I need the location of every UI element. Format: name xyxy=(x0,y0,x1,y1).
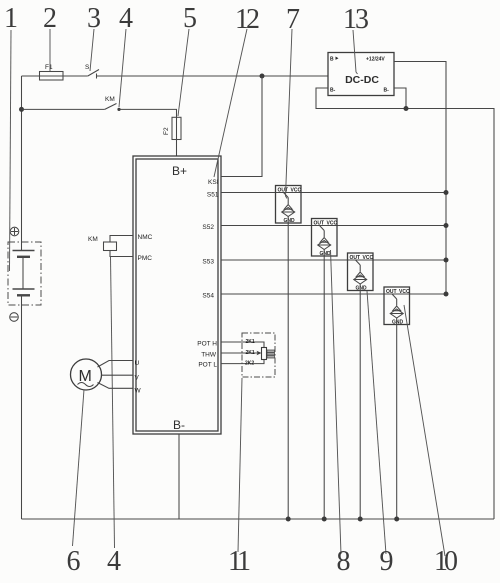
wire: DC-DC B- left loop xyxy=(316,88,494,519)
svg-text:DC-DC: DC-DC xyxy=(345,74,379,86)
switch S fixed contact tick xyxy=(96,74,98,79)
svg-text:B-: B- xyxy=(384,88,390,94)
svg-text:B-: B- xyxy=(173,418,185,432)
svg-text:2K1: 2K1 xyxy=(246,339,255,345)
svg-text:OUT: OUT xyxy=(314,221,325,227)
leader line to label 2 xyxy=(49,29,51,71)
svg-text:VCC: VCC xyxy=(291,188,302,194)
svg-text:12: 12 xyxy=(235,4,260,35)
leader line to label 12 xyxy=(214,29,247,177)
wire: battery - wire down to bottom bus xyxy=(21,305,23,519)
wire: motor V phase xyxy=(102,374,134,376)
wire: top B+ line from battery corner to fuse F1 xyxy=(22,75,88,77)
motor controller U1 xyxy=(133,156,221,434)
svg-text:11: 11 xyxy=(228,546,251,577)
node: SQ1 GND on bus xyxy=(286,517,291,522)
svg-text:VCC: VCC xyxy=(399,289,410,295)
svg-text:1: 1 xyxy=(4,3,18,34)
leader line to label 9 xyxy=(367,291,386,554)
svg-text:8: 8 xyxy=(337,546,351,577)
svg-text:B: B xyxy=(330,57,334,63)
svg-text:2: 2 xyxy=(43,3,57,34)
svg-text:F2: F2 xyxy=(163,127,170,135)
potentiometer RP body xyxy=(262,348,267,360)
svg-text:VCC: VCC xyxy=(327,221,338,227)
wire: controller B- to bottom bus xyxy=(178,434,180,519)
node: SQ2 GND on bus xyxy=(322,517,327,522)
sensor SQ4 box xyxy=(384,287,410,519)
svg-text:KSI: KSI xyxy=(208,179,219,186)
wire: S54 line to VCC bus xyxy=(221,293,446,295)
contactor KM fixed contact dot xyxy=(117,108,120,111)
svg-text:9: 9 xyxy=(380,546,394,577)
leader line to label 10 xyxy=(404,305,445,556)
svg-text:S: S xyxy=(85,64,90,71)
fuse F2 xyxy=(172,117,181,139)
potentiometer knob (hatched) xyxy=(267,350,275,358)
svg-text:VCC: VCC xyxy=(363,255,374,261)
leader line to label 4 (top) xyxy=(119,29,126,107)
wire: motor W phase xyxy=(98,383,134,389)
wire: KM contact to F2 xyxy=(119,109,177,156)
svg-text:OUT: OUT xyxy=(278,188,289,194)
svg-text:NMC: NMC xyxy=(138,234,153,241)
svg-text:B+: B+ xyxy=(172,164,187,178)
battery phantom box xyxy=(8,242,41,305)
svg-text:5: 5 xyxy=(183,3,197,34)
wire: S52 line to VCC bus xyxy=(221,225,446,227)
svg-text:3: 3 xyxy=(87,3,101,34)
wire: top B+ line after switch S to DC-DC B+ xyxy=(97,75,329,77)
wire: +12/24V output to VCC bus xyxy=(394,62,446,296)
wire: motor U phase xyxy=(98,361,134,368)
svg-text:S53: S53 xyxy=(202,259,214,266)
svg-text:POT L: POT L xyxy=(198,362,217,369)
svg-text:THW: THW xyxy=(201,352,217,359)
svg-text:S52: S52 xyxy=(202,224,214,231)
svg-text:6: 6 xyxy=(67,546,81,577)
node: SQ3 GND on bus xyxy=(358,517,363,522)
contactor KM main contact blade xyxy=(105,104,117,110)
leader line to label 7 xyxy=(286,29,293,199)
motor M1 xyxy=(71,359,102,390)
svg-text:GND: GND xyxy=(320,251,332,257)
svg-text:POT H: POT H xyxy=(197,341,217,348)
svg-text:F1: F1 xyxy=(45,64,53,71)
svg-text:PMC: PMC xyxy=(138,255,153,262)
leader line to label 1 xyxy=(10,30,12,271)
wire: KM coil to PMC xyxy=(110,251,133,257)
leader line to label 5 xyxy=(178,29,189,116)
svg-text:4: 4 xyxy=(119,3,133,34)
fuse F1 xyxy=(40,72,64,81)
svg-text:KM: KM xyxy=(105,96,115,103)
wire: POT L xyxy=(221,360,264,364)
battery plus terminal symbol xyxy=(10,227,19,236)
node: VCC bus taps xyxy=(444,190,449,195)
sensor SQ3 box xyxy=(348,253,374,519)
wire: POT H xyxy=(221,342,264,348)
wire: S51 line to VCC bus xyxy=(221,192,446,194)
sensor SQ1 box xyxy=(276,186,302,520)
wire: NMC to KM coil xyxy=(110,236,133,243)
node: junction left wire / KM line xyxy=(19,107,24,112)
svg-text:U: U xyxy=(135,360,140,367)
battery B1 cells xyxy=(13,251,35,306)
wire: bottom B- bus xyxy=(22,518,495,520)
sensor SQ2 box xyxy=(312,219,338,520)
leader line to label 11 xyxy=(238,378,242,552)
leader line to label 13 xyxy=(353,30,358,74)
svg-text:OUT: OUT xyxy=(350,255,361,261)
svg-text:W: W xyxy=(135,388,142,395)
svg-text:7: 7 xyxy=(286,4,300,35)
svg-text:+12/24V: +12/24V xyxy=(366,57,385,63)
svg-text:KM: KM xyxy=(88,236,98,243)
leader line to label 4 (bottom) xyxy=(111,257,115,549)
svg-text:GND: GND xyxy=(284,218,296,224)
leader line to label 8 xyxy=(331,250,342,554)
switch S blade xyxy=(88,70,99,77)
wire: S53 line to VCC bus xyxy=(221,259,446,261)
svg-text:2K2: 2K2 xyxy=(245,361,254,367)
node: junction of B+ line and KSI drop xyxy=(260,74,265,79)
svg-text:13: 13 xyxy=(343,4,369,35)
node: B- loop junction xyxy=(404,106,409,111)
DC-DC converter U2 xyxy=(328,53,394,96)
svg-text:S51: S51 xyxy=(207,192,219,199)
wire: KSI to B+ line xyxy=(221,76,262,177)
wire: THW with wiper arrow xyxy=(221,352,258,354)
wire: DC-DC B- right to loop xyxy=(394,88,406,109)
wire: KM contact line from left wire xyxy=(22,108,105,110)
contactor KM coil xyxy=(104,242,117,251)
throttle unit dashed box xyxy=(242,333,275,377)
leader line to label 6 xyxy=(73,390,85,547)
svg-text:B-: B- xyxy=(330,88,336,94)
svg-text:OUT: OUT xyxy=(386,289,397,295)
node: SQ4 GND on bus xyxy=(394,517,399,522)
battery minus terminal symbol xyxy=(10,313,19,322)
svg-text:S54: S54 xyxy=(202,293,214,300)
leader line to label 3 xyxy=(90,29,94,71)
svg-text:GND: GND xyxy=(392,320,404,326)
svg-text:2K1: 2K1 xyxy=(246,350,255,356)
svg-text:4: 4 xyxy=(107,546,121,577)
svg-text:10: 10 xyxy=(434,546,458,577)
svg-text:GND: GND xyxy=(356,286,368,292)
wire: left battery + wire (top corner down to battery box) xyxy=(21,76,23,251)
svg-text:V: V xyxy=(135,375,140,382)
